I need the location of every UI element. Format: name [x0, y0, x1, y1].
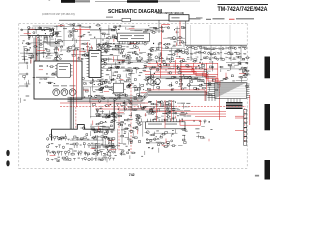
red dashed DC line horizontal: [60, 106, 246, 108]
label 50ohm: [106, 17, 113, 18]
wire stepped bundle black: [179, 77, 218, 89]
component cluster option connector area: [193, 120, 212, 141]
flexible board hatched block: [215, 83, 247, 99]
component cluster front-end amplifier: [54, 23, 93, 59]
VCO module X1: [57, 64, 71, 78]
staple mark left lower: [6, 160, 9, 166]
red trace audio lines: [95, 108, 160, 110]
registration bar top-center black: [127, 0, 158, 3]
svg-text:SCHEMATIC DIAGRAM: SCHEMATIC DIAGRAM: [108, 9, 162, 15]
IC3 pins top: [148, 119, 183, 122]
component cluster IF amplifier: [90, 24, 120, 52]
registration bar top-center gray tail: [158, 0, 180, 2]
IC1 pins left/right: [87, 53, 104, 77]
binding mark right C: [265, 160, 271, 180]
red trace from antenna box: [179, 21, 181, 45]
connector CN1: [28, 29, 54, 35]
red dashed drop 1: [75, 107, 77, 128]
IC IC2 (IF system): [117, 33, 149, 41]
IC2 label: [135, 30, 143, 31]
wire drop from antenna box: [185, 21, 187, 45]
red box highlighted option: [180, 120, 201, 125]
component cluster mic amplifier: [90, 122, 148, 159]
component cluster control head interface: [219, 62, 251, 82]
component cluster detector stage: [144, 42, 189, 66]
component cluster RX input filters: [20, 26, 62, 46]
red trace vertical near right border: [249, 95, 251, 125]
connector CN1 pins: [29, 28, 54, 38]
flex pins left: [208, 84, 215, 97]
component row block upper right: [187, 47, 248, 61]
wires in meter box area: [190, 25, 192, 45]
red dashed drop 3: [130, 84, 132, 152]
connector chain right border: [244, 110, 247, 146]
component cluster inside PLL box: [36, 65, 56, 84]
component cluster squelch circuit: [145, 100, 191, 121]
component cluster AF output misc: [49, 134, 116, 163]
TX-RX unit dashed border top: [19, 23, 247, 25]
AF board outline left drop: [51, 129, 53, 140]
red trace drops mic area: [155, 100, 157, 121]
red trace TX supply vertical: [161, 25, 163, 63]
IC2 pins: [119, 41, 148, 44]
red trace stepped bundle to flex: [180, 67, 216, 83]
connector striped block: [226, 102, 243, 109]
separator dashes in component rows: [196, 46, 236, 61]
inline attenuator component: [122, 18, 131, 22]
bus ribbon step: [142, 91, 215, 101]
component cluster ceramic filter stage: [100, 42, 146, 65]
component cluster PLL loop filter: [82, 77, 117, 103]
red trace PLL supply pair: [73, 50, 75, 99]
component cluster antenna switch: [163, 26, 185, 45]
transistor Q1: [53, 89, 60, 96]
component cluster PA driver stage: [144, 59, 218, 91]
component cluster below red dashed line: [80, 123, 112, 136]
labels above transistors: [53, 85, 59, 86]
model title rule: [218, 3, 269, 6]
bus ribbon cable lower: [68, 97, 143, 101]
binding mark right B: [265, 104, 271, 130]
legend signal line: [183, 18, 188, 20]
wire coax feed to antenna box: [59, 19, 122, 21]
wires flex to striped connector: [228, 99, 240, 103]
transistor Q11: [155, 79, 161, 85]
wire stub at feed: [158, 20, 160, 33]
transistor Q10: [148, 79, 154, 85]
registration tick far left: [49, 0, 51, 1]
red trace to TX amp: [162, 24, 171, 26]
component cluster data interface: [146, 128, 188, 153]
red dashed drop 2: [118, 107, 120, 151]
transistor Q3: [69, 89, 76, 96]
red dashed drop 4: [244, 108, 246, 143]
TX-RX unit dashed border left: [18, 24, 20, 169]
bus corner verticals to AF board: [70, 97, 73, 129]
red trace 13.8V branch: [75, 29, 90, 31]
wire columns through component rows: [191, 45, 241, 61]
wire bundle from CN1 down: [34, 38, 39, 61]
wire CN1 right pins to bus: [44, 38, 60, 42]
component cluster above IF IC: [117, 25, 165, 33]
component cluster near right border: [239, 57, 250, 87]
flex pins right: [247, 84, 250, 97]
component cluster left bias network: [20, 65, 35, 103]
TX-RX unit dashed border bottom: [19, 168, 247, 170]
wire bottom line of blank meter box: [185, 44, 247, 46]
TX-RX unit dashed border right: [246, 24, 248, 168]
red trace 13.8V line vertical left: [79, 26, 81, 60]
binding mark right A: [265, 57, 271, 79]
shield box PLL unit: [34, 61, 82, 99]
crystal X2 with case: [113, 83, 123, 93]
staple mark left upper: [6, 150, 9, 156]
AF board thick outline horizontal with bump: [52, 125, 115, 130]
component cluster AF output stage rows: [47, 136, 116, 161]
legend transistor DC line (red): [229, 18, 235, 20]
red trace vertical to LCD flex: [219, 83, 221, 120]
antenna relay box: [169, 15, 189, 21]
registration bar top-left gray: [75, 0, 90, 2]
AF board thick outline vertical: [113, 100, 115, 129]
red trace in CN1 bundle: [36, 38, 38, 61]
red trace near IC1: [87, 42, 89, 52]
wire horizontal TX line: [145, 76, 215, 78]
svg-text:TX-RX UNIT(X57-381X-XX): TX-RX UNIT(X57-381X-XX): [156, 11, 184, 15]
svg-text:742: 742: [129, 173, 135, 177]
red traces to right connector: [235, 115, 244, 117]
red trace along bus bottom: [60, 102, 148, 104]
svg-text:(COMB TO RX UNIT (X57-381X-XX): (COMB TO RX UNIT (X57-381X-XX)): [42, 12, 75, 16]
red trace mesh TX power lines: [145, 60, 218, 95]
component cluster TX exciter: [102, 60, 151, 86]
red trace along bus top: [148, 90, 205, 101]
IC IC3 (audio processor): [146, 122, 185, 129]
page footer TM: [255, 175, 259, 177]
svg-text:TM-742A/742E/942A: TM-742A/742E/942A: [218, 7, 269, 13]
left border tick components: [19, 62, 28, 87]
component cluster modulator: [114, 83, 152, 101]
transistor Q2: [61, 89, 68, 96]
component cluster mixer stage: [20, 46, 59, 64]
legend control line: [206, 18, 211, 20]
IC IC1 (PLL synthesizer): [89, 51, 101, 78]
component cluster AF amplifier: [90, 100, 147, 126]
label right of antenna box: [196, 17, 203, 18]
registration bar top-left black: [61, 0, 75, 3]
registration rule top-center thin: [95, 0, 127, 3]
